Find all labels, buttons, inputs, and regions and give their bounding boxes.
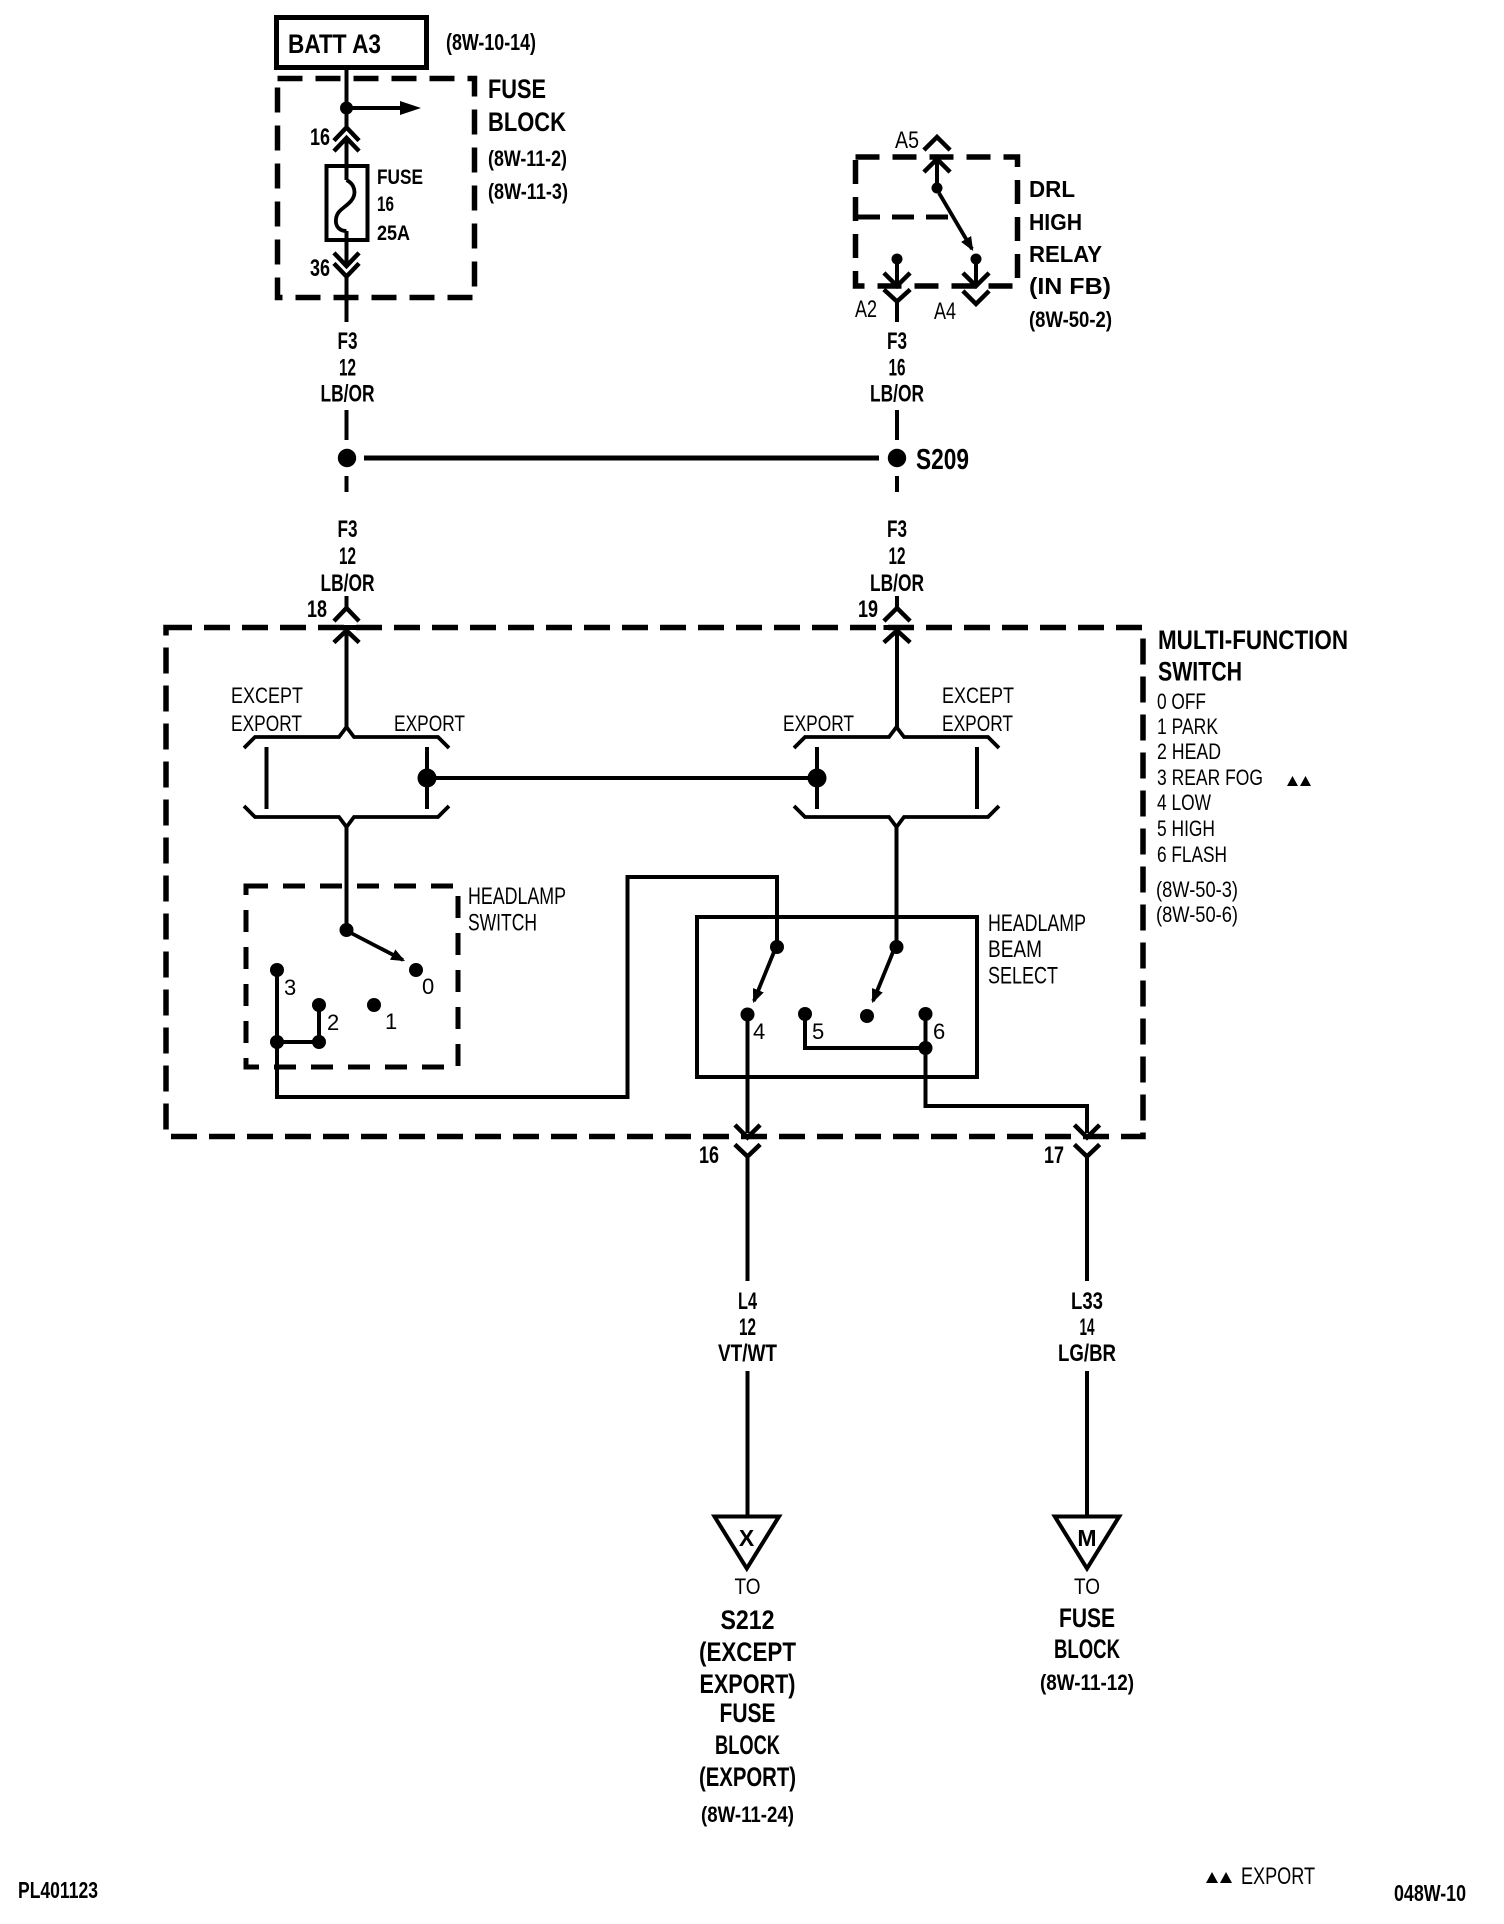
svg-text:19: 19 (858, 596, 878, 623)
svg-text:36: 36 (310, 255, 330, 282)
svg-text:LB/OR: LB/OR (870, 381, 924, 408)
DRL high relay dashed box (in fuse block) (856, 157, 1018, 286)
headlamp switch contact 3 (270, 963, 284, 977)
svg-text:LG/BR: LG/BR (1058, 1340, 1116, 1367)
svg-text:LB/OR: LB/OR (870, 570, 924, 597)
svg-text:048W-10: 048W-10 (1394, 1880, 1466, 1906)
svg-text:M: M (1077, 1525, 1096, 1551)
beam select right common node (890, 940, 904, 954)
wire left brace to headlamp switch (345, 827, 349, 925)
svg-text:SELECT: SELECT (988, 963, 1058, 990)
svg-text:3: 3 (284, 975, 296, 1000)
destination label TO FUSE BLOCK (1040, 1574, 1134, 1695)
left brace pin except-export (265, 747, 269, 809)
off-page connector X triangle (715, 1517, 780, 1569)
wire label F3 12 LB/OR (lower right) (870, 516, 924, 597)
headlamp beam select name label (988, 910, 1086, 990)
svg-text:S209: S209 (916, 444, 969, 476)
svg-text:BEAM: BEAM (988, 936, 1042, 963)
svg-text:BLOCK: BLOCK (715, 1730, 780, 1760)
svg-text:FUSE: FUSE (488, 74, 546, 104)
beam select contact 6 (919, 1007, 933, 1021)
svg-text:12: 12 (889, 543, 906, 570)
svg-text:0: 0 (422, 974, 434, 999)
svg-text:5 HIGH: 5 HIGH (1157, 816, 1215, 841)
relay contact node A4 (971, 254, 982, 265)
wire label L33 14 LG/BR (1058, 1288, 1116, 1367)
svg-text:EXCEPT: EXCEPT (231, 683, 303, 708)
wire to off-page connector M (1085, 1371, 1089, 1515)
svg-text:4 LOW: 4 LOW (1157, 790, 1211, 815)
svg-text:F3: F3 (338, 328, 358, 355)
export footnote triangles in list (1287, 776, 1311, 786)
svg-text:16: 16 (889, 355, 906, 382)
svg-text:12: 12 (339, 543, 356, 570)
svg-text:(8W-50-3): (8W-50-3) (1156, 877, 1238, 902)
feed arrow to other circuits (347, 101, 422, 115)
pin 17 exit arrow (1076, 1127, 1098, 1138)
left alternate-terminal brace bottom (244, 806, 449, 827)
svg-text:L33: L33 (1071, 1288, 1103, 1315)
connector half above relay pin A5 (926, 137, 949, 149)
wire contact 6 to junction (924, 1014, 928, 1048)
wire label F3 12 LB/OR (lower left) (321, 516, 375, 597)
wire joining contacts 3 and 2 (277, 1040, 319, 1044)
relay name label DRL HIGH RELAY (IN FB) (1029, 176, 1112, 332)
svg-text:(8W-11-2): (8W-11-2) (488, 146, 567, 171)
node at contact 3 drop (270, 1035, 284, 1049)
svg-text:1: 1 (385, 1009, 397, 1034)
svg-text:16: 16 (699, 1142, 719, 1169)
svg-text:BLOCK: BLOCK (1054, 1634, 1120, 1664)
headlamp switch dashed box (246, 886, 458, 1067)
svg-text:L4: L4 (738, 1288, 757, 1315)
right alternate-terminal brace bottom (794, 806, 999, 827)
connector half below relay pin A2 (886, 291, 909, 322)
terminal chevrons pin 36 (336, 255, 358, 323)
node below contact 2 (312, 1035, 326, 1049)
box edge dash at pin 19 crossing (884, 625, 911, 630)
svg-text:1 PARK: 1 PARK (1157, 714, 1218, 739)
wire fuse to pin 36 (345, 231, 349, 265)
terminal chevrons pin 16 (336, 114, 358, 180)
svg-text:25A: 25A (377, 222, 410, 245)
svg-text:16: 16 (377, 193, 394, 216)
right brace pin except-export (975, 747, 979, 809)
svg-text:14: 14 (1080, 1314, 1095, 1341)
svg-text:FUSE: FUSE (377, 166, 423, 189)
pin 16 exit arrow (737, 1127, 759, 1138)
svg-text:HEADLAMP: HEADLAMP (468, 883, 566, 910)
splice bus wire (364, 456, 879, 461)
wire contact 4 to pin 16 (746, 1014, 750, 1133)
pin 19 entry arrow into switch (886, 630, 909, 727)
box edge dash at pin 18 crossing (333, 625, 360, 630)
wire contact 2 down (317, 1005, 321, 1042)
svg-text:EXCEPT: EXCEPT (942, 683, 1014, 708)
wire label F3 16 LB/OR (upper right) (870, 328, 924, 408)
relay contact node A2 (892, 254, 903, 265)
svg-text:(IN FB): (IN FB) (1029, 273, 1111, 299)
multi-function switch dashed box (166, 628, 1143, 1137)
svg-text:16: 16 (310, 124, 330, 151)
svg-text:(8W-10-14): (8W-10-14) (446, 29, 536, 55)
junction node in fuse block (340, 102, 353, 115)
svg-text:S212: S212 (721, 1605, 775, 1635)
headlamp beam select box (697, 917, 977, 1077)
wire to off-page connector X (746, 1371, 750, 1515)
connector half below relay pin A4 (965, 293, 988, 305)
splice node S209 left dot (338, 449, 356, 467)
svg-text:FUSE: FUSE (1059, 1603, 1115, 1633)
svg-text:HEADLAMP: HEADLAMP (988, 910, 1086, 937)
relay coil/contact divider dashed line (858, 215, 948, 220)
relay pin A5 arrow (926, 159, 949, 183)
fuse value labels FUSE 16 25A (377, 166, 423, 245)
left alternate-terminal brace top (244, 727, 449, 748)
wire contact 5 to junction (805, 1014, 926, 1048)
svg-text:F3: F3 (338, 516, 358, 543)
svg-text:LB/OR: LB/OR (321, 570, 375, 597)
connector half above pin 19 (886, 596, 909, 620)
svg-text:(8W-11-3): (8W-11-3) (488, 179, 568, 204)
routing wire junction to pin 17 (926, 1048, 1088, 1133)
svg-text:EXPORT: EXPORT (1241, 1863, 1315, 1890)
connector half below pin 16 (737, 1146, 759, 1281)
export link node right (808, 769, 827, 788)
destination label TO S212 (EXCEPT EXPORT) FUSE BLOCK (EXPORT) (699, 1574, 796, 1827)
beam select contact 5 (798, 1007, 812, 1021)
fuse F3 25A (327, 166, 368, 240)
svg-text:X: X (739, 1525, 755, 1551)
svg-text:(8W-50-2): (8W-50-2) (1029, 307, 1112, 332)
fuse block name label (488, 74, 568, 204)
wire contact 3 down (275, 970, 279, 1042)
svg-text:SWITCH: SWITCH (468, 910, 537, 937)
svg-text:17: 17 (1044, 1142, 1064, 1169)
svg-text:(8W-11-12): (8W-11-12) (1040, 1670, 1134, 1695)
relay pin A2 arrow (886, 263, 909, 286)
svg-text:EXPORT: EXPORT (231, 711, 302, 736)
headlamp switch contact 0 (409, 963, 423, 977)
beam select contact 4 (741, 1008, 755, 1022)
export footnote legend (1206, 1863, 1315, 1890)
svg-text:EXPORT): EXPORT) (700, 1669, 796, 1699)
variant label EXCEPT EXPORT (right) (942, 683, 1014, 736)
routing wire headlamp switch output (277, 877, 777, 1097)
svg-text:(8W-11-24): (8W-11-24) (701, 1802, 794, 1827)
svg-text:4: 4 (753, 1019, 765, 1044)
svg-text:MULTI-FUNCTION: MULTI-FUNCTION (1158, 625, 1348, 655)
splice node S209 right dot (888, 449, 906, 467)
svg-text:5: 5 (812, 1019, 824, 1044)
right alternate-terminal brace top (794, 727, 999, 748)
headlamp switch name label (468, 883, 566, 937)
beam select left wiper arm to contact 4 (754, 952, 774, 1001)
svg-text:VT/WT: VT/WT (718, 1340, 777, 1367)
relay pin A4 arrow (965, 263, 988, 286)
variant label EXCEPT EXPORT (left) (231, 683, 303, 736)
svg-text:TO: TO (735, 1574, 761, 1599)
wire right brace to beam select (895, 827, 899, 941)
headlamp switch contact 2 (312, 998, 326, 1012)
svg-text:F3: F3 (887, 328, 907, 355)
relay switch arm A5 to A4 (939, 193, 972, 249)
relay common node (932, 183, 943, 194)
wire to S209 right (895, 410, 899, 440)
connector half above pin 18 (336, 596, 358, 620)
svg-text:(EXPORT): (EXPORT) (699, 1762, 796, 1792)
beam select flash contact (unlabeled) (860, 1009, 874, 1023)
beam select right wiper arm (873, 952, 893, 1001)
svg-text:F3: F3 (887, 516, 907, 543)
fuse block dashed box (278, 79, 475, 298)
export link node left (418, 769, 437, 788)
wire S209 down left (345, 476, 349, 492)
svg-text:EXPORT: EXPORT (394, 711, 465, 736)
headlamp switch common node (340, 923, 354, 937)
connector half below pin 17 (1076, 1146, 1098, 1281)
svg-text:A2: A2 (855, 296, 877, 323)
svg-text:3 REAR FOG: 3 REAR FOG (1157, 765, 1263, 790)
svg-text:18: 18 (307, 596, 327, 623)
svg-text:6 FLASH: 6 FLASH (1157, 842, 1227, 867)
right brace pin export (815, 747, 819, 809)
svg-text:6: 6 (933, 1019, 945, 1044)
wire to S209 left (345, 410, 349, 440)
left brace pin export (425, 747, 429, 809)
svg-text:A5: A5 (895, 127, 919, 154)
battery feed box BATT A3 (277, 18, 427, 68)
svg-text:TO: TO (1074, 1574, 1100, 1599)
beam select left common node (770, 940, 784, 954)
svg-text:A4: A4 (934, 298, 956, 325)
svg-text:12: 12 (739, 1314, 756, 1341)
headlamp switch wiper arm to position 0 (351, 933, 403, 960)
svg-text:HIGH: HIGH (1029, 209, 1082, 235)
svg-text:RELAY: RELAY (1029, 241, 1102, 267)
svg-text:LB/OR: LB/OR (321, 381, 375, 408)
wire label F3 12 LB/OR (upper left) (321, 328, 375, 408)
wire S209 down right (895, 476, 899, 492)
svg-text:SWITCH: SWITCH (1158, 657, 1242, 687)
headlamp switch contact 1 (367, 998, 381, 1012)
svg-text:BLOCK: BLOCK (488, 107, 566, 137)
svg-text:2: 2 (327, 1010, 339, 1035)
svg-text:12: 12 (339, 355, 356, 382)
svg-text:(EXCEPT: (EXCEPT (699, 1637, 796, 1667)
svg-text:EXPORT: EXPORT (783, 711, 854, 736)
pin 18 entry arrow into switch (336, 630, 358, 727)
wire label L4 12 VT/WT (718, 1288, 777, 1367)
multi-function switch name and position list (1156, 625, 1348, 927)
junction node 5-6 (919, 1041, 933, 1055)
wire BATT A3 to junction (345, 69, 349, 103)
svg-text:2 HEAD: 2 HEAD (1157, 739, 1221, 764)
svg-text:FUSE: FUSE (720, 1698, 776, 1728)
svg-text:0 OFF: 0 OFF (1157, 689, 1206, 714)
svg-text:BATT A3: BATT A3 (288, 29, 381, 59)
svg-text:DRL: DRL (1029, 176, 1075, 202)
off-page connector M triangle (1055, 1517, 1119, 1569)
export link wire (427, 776, 817, 780)
svg-text:EXPORT: EXPORT (942, 711, 1013, 736)
svg-text:(8W-50-6): (8W-50-6) (1156, 902, 1238, 927)
svg-text:PL401123: PL401123 (18, 1877, 98, 1903)
